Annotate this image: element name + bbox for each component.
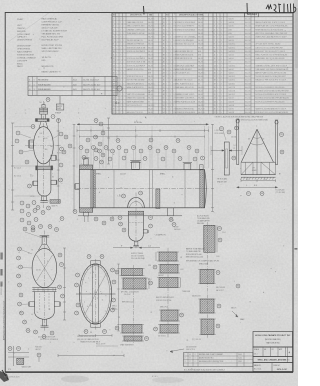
svg-text:45: 45	[95, 219, 97, 221]
svg-text:1: 1	[166, 62, 167, 64]
svg-text:1: 1	[170, 22, 171, 24]
svg-text:DESIGN PRESS: DESIGN PRESS	[17, 40, 33, 42]
svg-text:1: 1	[123, 94, 124, 96]
svg-text:27: 27	[150, 140, 152, 142]
svg-text:3: 3	[29, 89, 30, 91]
svg-text:5: 5	[214, 33, 215, 35]
svg-text:LIFT LUG 3/4 PL X 6 FULL KILLE: LIFT LUG 3/4 PL X 6 FULL KILLED	[255, 44, 281, 46]
svg-text:1: 1	[214, 19, 215, 21]
svg-text:4: 4	[27, 206, 28, 208]
svg-text:5/8: 5/8	[180, 257, 182, 259]
svg-text:CORR ALLOWANCE: CORR ALLOWANCE	[17, 56, 36, 59]
svg-text:(452) 3/4 OD TUBES ON 15/16: (452) 3/4 OD TUBES ON 15/16	[77, 339, 99, 341]
svg-text:NOZ FLG 6-150 RFWN FS FULL KIL: NOZ FLG 6-150 RFWN FS FULL KILLED	[255, 87, 285, 89]
svg-text:8: 8	[86, 151, 87, 153]
svg-text:1: 1	[217, 37, 218, 39]
svg-text:7: 7	[123, 158, 124, 160]
svg-text:1: 1	[166, 73, 167, 75]
svg-text:15: 15	[214, 69, 216, 71]
svg-text:NOZ NECK 3 SCH 40 SM: NOZ NECK 3 SCH 40 SM	[127, 62, 146, 64]
svg-text:1: 1	[217, 55, 218, 57]
svg-text:1: 1	[116, 80, 117, 82]
svg-text:3: 3	[221, 40, 222, 42]
joint detail B block 2	[160, 265, 178, 274]
tubesheet balloons	[76, 273, 80, 277]
svg-text:2: 2	[120, 47, 121, 49]
svg-text:1: 1	[123, 29, 124, 31]
svg-text:53: 53	[163, 109, 165, 111]
svg-text:77: 77	[112, 300, 114, 302]
svg-text:3: 3	[21, 220, 22, 222]
svg-text:4: 4	[113, 29, 114, 31]
svg-text:1: 1	[217, 101, 218, 103]
frame dimensions	[241, 180, 276, 182]
svg-text:1: 1	[170, 19, 171, 21]
svg-text:3: 3	[221, 33, 222, 35]
svg-text:30: 30	[163, 26, 165, 28]
svg-text:9: 9	[47, 261, 48, 263]
svg-text:1: 1	[166, 51, 167, 53]
svg-text:3: 3	[93, 147, 94, 149]
svg-text:22: 22	[42, 212, 44, 214]
tubesheet interior marks	[95, 306, 98, 309]
vessel V1 lower right nozzle	[51, 155, 56, 160]
vessel V1 right dimension line	[57, 119, 59, 202]
svg-text:40: 40	[163, 62, 165, 64]
svg-text:1: 1	[123, 33, 124, 35]
svg-text:2: 2	[120, 62, 121, 64]
svg-text:1: 1	[166, 80, 167, 82]
tubesheet face view inner	[81, 266, 110, 323]
svg-text:ISSUE ADDED: ISSUE ADDED	[38, 83, 51, 86]
svg-text:19: 19	[47, 208, 49, 210]
svg-text:1: 1	[170, 29, 171, 31]
svg-text:1: 1	[170, 112, 171, 114]
joint detail A centerline	[133, 265, 135, 343]
svg-text:(TY) 76/1-7/8: (TY) 76/1-7/8	[192, 339, 201, 341]
joint detail C block 3	[200, 299, 214, 313]
svg-text:3: 3	[221, 87, 222, 89]
drum side nozzle	[143, 230, 147, 233]
svg-text:NOZ NECK 6 SCH 40 SMLS: NOZ NECK 6 SCH 40 SMLS	[175, 112, 195, 114]
svg-text:25: 25	[117, 140, 119, 142]
table pointer mark	[143, 6, 146, 15]
svg-text:35: 35	[94, 137, 96, 139]
svg-text:31: 31	[163, 29, 165, 31]
vessel V1 callout balloons	[16, 131, 20, 135]
svg-text:2: 2	[120, 37, 121, 39]
svg-text:SHELL 480 TUBE 510: SHELL 480 TUBE 510	[42, 48, 63, 50]
svg-text:38: 38	[163, 55, 165, 57]
svg-text:30: 30	[95, 120, 97, 122]
svg-text:1: 1	[166, 47, 167, 49]
lifting frame posts	[237, 119, 239, 165]
svg-text:1: 1	[166, 33, 167, 35]
svg-text:1: 1	[166, 55, 167, 57]
svg-text:4'-0: 4'-0	[264, 179, 267, 181]
svg-text:1: 1	[116, 40, 117, 42]
svg-text:2: 2	[120, 40, 121, 42]
svg-text:STUD BOLT 3/4 X 4-1/: STUD BOLT 3/4 X 4-1/	[127, 76, 144, 78]
svg-text:1: 1	[170, 37, 171, 39]
left edge scan marks	[0, 269, 2, 276]
svg-text:42 OD: 42 OD	[36, 270, 42, 272]
svg-text:39: 39	[100, 162, 102, 164]
svg-text:NOZ NECK 6 SCH 40 SM: NOZ NECK 6 SCH 40 SM	[127, 47, 146, 49]
svg-text:1: 1	[123, 98, 124, 100]
svg-text:2: 2	[173, 19, 174, 21]
svg-text:R/N-023 FILE 4070: R/N-023 FILE 4070	[4, 377, 19, 379]
svg-text:1: 1	[123, 44, 124, 46]
svg-text:22: 22	[20, 295, 22, 297]
svg-text:R.L 409-418: R.L 409-418	[276, 189, 285, 191]
bill of materials table	[112, 13, 293, 114]
floating tubesheet	[200, 169, 203, 208]
svg-text:2: 2	[120, 112, 121, 114]
svg-text:2: 2	[120, 58, 121, 60]
svg-text:1: 1	[166, 65, 167, 67]
svg-text:L.L.L: L.L.L	[118, 196, 122, 198]
svg-text:TUBE SHEET 1-3/8 THK FL: TUBE SHEET 1-3/8 THK FL	[175, 98, 195, 100]
svg-text:1: 1	[170, 98, 171, 100]
svg-text:2: 2	[120, 55, 121, 57]
svg-text:3: 3	[221, 105, 222, 107]
svg-text:16: 16	[132, 147, 134, 149]
svg-text:REFINERY UNIT B: REFINERY UNIT B	[42, 25, 60, 27]
svg-text:1: 1	[116, 51, 117, 53]
svg-text:1: 1	[116, 33, 117, 35]
joint detail B dims	[155, 252, 157, 261]
vessel V2 right dimension line	[64, 248, 66, 320]
svg-text:4-61: 4-61	[73, 89, 77, 91]
inspection stamp	[59, 96, 61, 104]
svg-text:NTS: NTS	[8, 369, 11, 371]
svg-text:92: 92	[217, 272, 219, 274]
frame ground hatching	[240, 177, 242, 179]
svg-text:1: 1	[116, 37, 117, 39]
svg-text:4070-D-107: 4070-D-107	[277, 369, 288, 371]
svg-text:4: 4	[140, 151, 141, 153]
svg-text:29: 29	[177, 140, 179, 142]
svg-text:2: 2	[21, 211, 22, 213]
svg-text:45°: 45°	[262, 139, 265, 141]
svg-text:48: 48	[163, 91, 165, 93]
svg-text:1: 1	[123, 37, 124, 39]
svg-text:10-61 P.L 12-61 10-7: 10-61 P.L 12-61 10-7	[83, 84, 101, 86]
svg-text:1: 1	[170, 44, 171, 46]
svg-text:1: 1	[166, 87, 167, 89]
svg-text:7: 7	[61, 149, 62, 151]
svg-text:FDN BOLT: FDN BOLT	[35, 347, 42, 349]
svg-text:8'-0: 8'-0	[254, 185, 257, 187]
svg-text:SHELL: SHELL	[160, 173, 165, 175]
svg-text:1: 1	[166, 98, 167, 100]
svg-text:DESCRIPTION: DESCRIPTION	[130, 15, 142, 17]
svg-text:1: 1	[123, 91, 124, 93]
svg-text:2: 2	[173, 105, 174, 107]
svg-text:18: 18	[165, 147, 167, 149]
svg-text:2: 2	[173, 76, 174, 78]
drum tubesheet band	[128, 211, 143, 214]
svg-text:1-3/8: 1-3/8	[216, 256, 220, 258]
svg-text:12: 12	[149, 147, 151, 149]
svg-text:3: 3	[221, 62, 222, 64]
svg-text:1: 1	[217, 44, 218, 46]
svg-text:6: 6	[214, 37, 215, 39]
misc small detail	[37, 353, 41, 357]
svg-text:6: 6	[17, 133, 18, 135]
svg-text:WELDING: WELDING	[197, 223, 205, 225]
svg-text:2: 2	[173, 91, 174, 93]
svg-text:1: 1	[217, 94, 218, 96]
drum bottom nozzle	[134, 241, 138, 246]
svg-text:95: 95	[9, 348, 11, 350]
svg-text:STRESS RELIEVE: STRESS RELIEVE	[17, 54, 35, 56]
svg-text:13: 13	[188, 147, 190, 149]
vessel V1 left dimension line	[12, 123, 14, 210]
joint detail C block 2	[200, 270, 214, 284]
svg-text:2: 2	[120, 87, 121, 89]
svg-text:30: 30	[27, 330, 29, 332]
joint detail C balloons	[218, 227, 222, 231]
svg-text:5: 5	[28, 214, 29, 216]
svg-text:1: 1	[170, 51, 171, 53]
svg-text:29: 29	[163, 22, 165, 24]
svg-text:1: 1	[116, 65, 117, 67]
svg-text:2: 2	[120, 33, 121, 35]
svg-text:1: 1	[217, 73, 218, 75]
svg-text:CODE STAMP: CODE STAMP	[17, 33, 31, 36]
svg-text:3: 3	[221, 94, 222, 96]
svg-text:12: 12	[20, 152, 22, 154]
svg-text:HYDRO TEST 975 PSI: HYDRO TEST 975 PSI	[42, 45, 63, 47]
svg-text:53: 53	[139, 193, 141, 195]
svg-text:(TY 411 SIM): (TY 411 SIM)	[276, 192, 286, 194]
svg-text:1: 1	[29, 80, 30, 82]
svg-text:1: 1	[123, 112, 124, 114]
svg-text:1: 1	[116, 69, 117, 71]
svg-text:1: 1	[166, 101, 167, 103]
svg-text:1: 1	[116, 83, 117, 85]
svg-text:1: 1	[116, 26, 117, 28]
svg-text:1: 1	[166, 19, 167, 21]
svg-text:39: 39	[61, 296, 63, 298]
svg-text:84: 84	[149, 283, 151, 285]
title block number row	[253, 363, 293, 372]
svg-text:1: 1	[34, 89, 35, 91]
svg-text:87: 87	[154, 267, 156, 269]
svg-text:83: 83	[116, 272, 118, 274]
svg-text:1: 1	[217, 91, 218, 93]
svg-text:1: 1	[123, 19, 124, 21]
svg-text:DESCRIPTION & ALLOY STEEL: DESCRIPTION & ALLOY STEEL	[179, 14, 204, 17]
svg-text:9: 9	[214, 47, 215, 49]
svg-text:TSA TIL MCM 700: TSA TIL MCM 700	[266, 342, 280, 345]
svg-text:DWG NO: DWG NO	[274, 365, 281, 367]
svg-text:11: 11	[32, 230, 34, 232]
svg-text:3: 3	[221, 29, 222, 31]
svg-text:14: 14	[111, 151, 113, 153]
svg-text:28: 28	[163, 19, 165, 21]
svg-text:24: 24	[214, 101, 216, 103]
svg-text:1: 1	[116, 55, 117, 57]
svg-text:1: 1	[116, 73, 117, 75]
svg-text:36: 36	[99, 144, 101, 146]
svg-text:49: 49	[119, 224, 121, 226]
svg-text:39: 39	[163, 58, 165, 60]
svg-text:33: 33	[163, 37, 165, 39]
svg-text:2: 2	[113, 22, 114, 24]
vessel V1 shell ellipse	[34, 127, 54, 164]
svg-text:SS: SS	[229, 62, 231, 64]
svg-text:2: 2	[173, 47, 174, 49]
vessel V2 right balloons	[58, 253, 62, 257]
svg-text:1: 1	[166, 112, 167, 114]
svg-text:89: 89	[154, 329, 156, 331]
svg-text:2: 2	[120, 29, 121, 31]
svg-text:2: 2	[29, 84, 30, 86]
svg-text:1: 1	[116, 44, 117, 46]
exchanger top nozzle	[132, 162, 140, 170]
svg-text:650 PSIG AT 750 F: 650 PSIG AT 750 F	[42, 38, 60, 41]
svg-text:45°: 45°	[248, 139, 251, 141]
svg-text:DBL 76/3-8/8: DBL 76/3-8/8	[216, 287, 225, 289]
drum bottom head	[129, 235, 144, 242]
svg-text:1: 1	[123, 62, 124, 64]
svg-text:56: 56	[149, 217, 151, 219]
svg-text:57: 57	[149, 226, 151, 228]
svg-text:1: 1	[217, 112, 218, 114]
tubesheet centerlines	[95, 259, 97, 330]
svg-text:1: 1	[123, 47, 124, 49]
tubesheet bottom gland	[91, 323, 101, 327]
svg-text:9: 9	[16, 141, 17, 143]
svg-text:2: 2	[120, 98, 121, 100]
svg-text:1: 1	[217, 87, 218, 89]
svg-text:3: 3	[221, 69, 222, 71]
svg-text:3: 3	[221, 80, 222, 82]
svg-text:1: 1	[123, 80, 124, 82]
svg-text:NUT HVY HEX 3/4 SEMI: NUT HVY HEX 3/4 SEMI	[127, 80, 145, 82]
svg-text:TUBE SHEET 1-3/8 THK: TUBE SHEET 1-3/8 THK	[127, 33, 146, 35]
svg-text:10-61 T.L 12-61 10-7: 10-61 T.L 12-61 10-7	[83, 89, 100, 91]
svg-text:35: 35	[55, 229, 57, 231]
handwritten drawing number	[246, 3, 248, 14]
svg-text:4: 4	[99, 192, 100, 194]
svg-text:2: 2	[173, 33, 174, 35]
bottom margin smudges	[61, 376, 89, 383]
svg-text:HAIG CHEMICAL: HAIG CHEMICAL	[42, 18, 59, 21]
svg-text:25: 25	[113, 105, 115, 107]
svg-text:(MOCSU GSA CRK): (MOCSU GSA CRK)	[265, 338, 281, 341]
svg-text:26: 26	[214, 109, 216, 111]
revision strip	[184, 353, 254, 367]
svg-text:1: 1	[123, 83, 124, 85]
svg-text:8: 8	[202, 158, 203, 160]
svg-text:68: 68	[261, 193, 263, 195]
svg-text:2: 2	[120, 83, 121, 85]
svg-text:1: 1	[170, 73, 171, 75]
svg-text:1: 1	[123, 101, 124, 103]
joint detail B block 1	[159, 252, 177, 261]
svg-text:6: 6	[28, 223, 29, 225]
svg-text:PLANT: PLANT	[17, 18, 24, 21]
svg-text:64: 64	[237, 286, 239, 288]
svg-text:42: 42	[163, 69, 165, 71]
svg-text:21: 21	[37, 207, 39, 209]
svg-text:1: 1	[170, 83, 171, 85]
svg-text:1: 1	[217, 65, 218, 67]
title block scale row	[253, 347, 293, 357]
svg-text:10: 10	[24, 229, 26, 231]
svg-text:1: 1	[217, 19, 218, 21]
svg-text:26: 26	[69, 146, 71, 148]
svg-text:1: 1	[217, 40, 218, 42]
svg-text:2: 2	[120, 51, 121, 53]
svg-text:12: 12	[18, 249, 20, 251]
baffle hatched bar	[156, 189, 160, 209]
svg-text:80: 80	[101, 256, 103, 258]
svg-text:1: 1	[217, 83, 218, 85]
svg-text:1: 1	[123, 87, 124, 89]
svg-text:18: 18	[113, 80, 115, 82]
svg-text:1: 1	[116, 29, 117, 31]
tubesheet bolt ticks	[110, 293, 112, 295]
svg-text:1: 1	[116, 76, 117, 78]
svg-text:41: 41	[163, 65, 165, 67]
svg-text:3: 3	[95, 158, 96, 160]
svg-text:1: 1	[166, 58, 167, 60]
svg-text:LIFT: LIFT	[252, 168, 255, 170]
svg-text:3: 3	[221, 65, 222, 67]
svg-text:1-1/8: 1-1/8	[180, 269, 184, 271]
svg-text:3: 3	[32, 126, 33, 128]
svg-text:20: 20	[113, 87, 115, 89]
svg-text:1: 1	[170, 62, 171, 64]
svg-text:REF DWG D-102: REF DWG D-102	[122, 302, 134, 304]
svg-text:1: 1	[217, 33, 218, 35]
svg-text:1: 1	[217, 80, 218, 82]
svg-text:41: 41	[61, 218, 63, 220]
svg-text:NOZ NECK 4 SCH 40 SMLS 4 REQ P: NOZ NECK 4 SCH 40 SMLS 4 REQ PER UNIT	[255, 91, 289, 93]
svg-text:37: 37	[95, 150, 97, 152]
svg-text:6 1/2: 6 1/2	[30, 176, 34, 178]
svg-text:RADIOGRAPHY: RADIOGRAPHY	[17, 50, 32, 53]
svg-text:6: 6	[105, 147, 106, 149]
exchanger channel	[79, 170, 93, 208]
svg-text:APPROVED FOR CONSTRUCTION 4070: APPROVED FOR CONSTRUCTION 4070-D-107	[2, 301, 5, 340]
vessel V2 bottom balloons	[34, 330, 38, 334]
svg-text:14: 14	[17, 258, 19, 260]
svg-text:17: 17	[214, 76, 216, 78]
svg-text:32: 32	[32, 227, 34, 229]
svg-text:1: 1	[217, 29, 218, 31]
vessel V2 internal diagonals	[37, 255, 53, 281]
svg-text:23: 23	[214, 98, 216, 100]
ground datum line	[78, 215, 182, 217]
tubesheet face view outer	[79, 264, 111, 324]
svg-text:12-7-61 12-61 10-7: 12-7-61 12-61 10-7	[83, 80, 99, 82]
svg-text:1: 1	[116, 22, 117, 24]
svg-text:40: 40	[34, 332, 36, 334]
vessel V2 neck	[39, 244, 51, 250]
svg-text:RODS PER STD 4-B: RODS PER STD 4-B	[186, 254, 201, 256]
vessel V1 girth flange	[36, 165, 53, 167]
svg-text:3: 3	[221, 76, 222, 78]
svg-text:3: 3	[221, 26, 222, 28]
svg-text:SS: SS	[148, 101, 150, 103]
svg-text:REVISED PER CLIENT COMMENT: REVISED PER CLIENT COMMENT	[199, 354, 223, 356]
